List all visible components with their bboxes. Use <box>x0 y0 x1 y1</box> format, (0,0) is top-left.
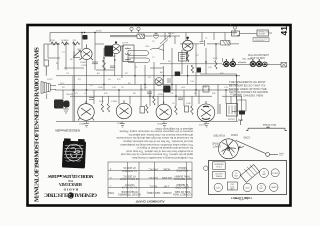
svg-text:1ST IF: 1ST IF <box>122 43 129 45</box>
svg-text:12SK7: 12SK7 <box>117 123 124 125</box>
svg-text:CONV.: CONV. <box>81 65 88 67</box>
svg-text:THRU DUMMY: THRU DUMMY <box>174 174 191 177</box>
svg-text:.02: .02 <box>172 103 176 105</box>
svg-text:470K: 470K <box>158 94 163 96</box>
svg-text:455 KC: 455 KC <box>149 184 157 187</box>
svg-text:.1 MF: .1 MF <box>163 184 170 187</box>
svg-text:47K: 47K <box>117 79 121 81</box>
svg-text:SOCKET: SOCKET <box>259 34 266 36</box>
svg-text:ON-OFF: ON-OFF <box>66 94 74 96</box>
svg-text:150K: 150K <box>186 103 191 105</box>
svg-text:C7: C7 <box>152 57 155 59</box>
svg-text:SERVICE DATA: SERVICE DATA <box>59 182 82 186</box>
svg-text:MODELS 115, 115W and 116W: MODELS 115, 115W and 116W <box>54 128 80 132</box>
svg-text:R11: R11 <box>212 93 216 95</box>
svg-text:IN THE CHASSIS VIEW: IN THE CHASSIS VIEW <box>233 94 263 98</box>
svg-text:C11: C11 <box>170 93 174 95</box>
svg-text:OUTPUT: OUTPUT <box>124 183 134 186</box>
svg-text:R6: R6 <box>133 93 136 95</box>
svg-text:adjusted in the Alignment Char: adjusted in the Alignment Chart. <box>155 127 193 131</box>
svg-text:470K: 470K <box>50 40 55 42</box>
svg-text:35Z5: 35Z5 <box>213 58 218 60</box>
svg-text:12SQ7: 12SQ7 <box>157 124 164 126</box>
svg-text:VOL.: VOL. <box>60 83 65 85</box>
svg-text:STEP: STEP <box>107 191 114 194</box>
svg-text:TRANS.: TRANS. <box>216 175 223 178</box>
svg-text:C14: C14 <box>190 81 195 83</box>
svg-text:C8: C8 <box>148 77 151 79</box>
svg-text:41: 41 <box>279 26 289 36</box>
svg-text:455 KC: 455 KC <box>168 33 175 35</box>
svg-text:AT 1620 KC: AT 1620 KC <box>123 175 136 178</box>
svg-text:DIAL ADJUSTMENT: DIAL ADJUSTMENT <box>248 54 270 57</box>
svg-text:SK7: SK7 <box>260 188 264 190</box>
svg-text:3: 3 <box>109 168 111 171</box>
svg-text:SIGNAL: SIGNAL <box>177 166 186 169</box>
svg-text:IN SERIES: IN SERIES <box>176 183 188 186</box>
svg-text:DUMMY: DUMMY <box>162 191 171 194</box>
svg-text:SIDE OF GEN.: SIDE OF GEN. <box>174 190 190 193</box>
svg-text:SHAFT: SHAFT <box>212 145 221 149</box>
svg-text:200 MMF: 200 MMF <box>161 176 172 179</box>
svg-text:IN SEQUENCE: IN SEQUENCE <box>121 190 138 193</box>
svg-text:.005: .005 <box>181 87 186 89</box>
svg-text:455KC: 455KC <box>96 31 103 33</box>
svg-text:T1: T1 <box>135 67 138 69</box>
svg-text:C15: C15 <box>208 67 213 69</box>
svg-text:TUBE LAYOUT: TUBE LAYOUT <box>231 196 252 200</box>
svg-text:ALIGNMENT CHART: ALIGNMENT CHART <box>135 200 164 204</box>
svg-text:R9: R9 <box>194 93 197 95</box>
svg-text:220K: 220K <box>99 101 104 103</box>
svg-text:R5: R5 <box>168 61 171 63</box>
svg-text:AT 1400 KC: AT 1400 KC <box>123 166 136 169</box>
svg-text:RADIO: RADIO <box>63 188 78 192</box>
svg-text:DRUM: DRUM <box>231 133 238 135</box>
svg-text:SW.: SW. <box>233 33 237 35</box>
svg-text:SA7: SA7 <box>262 173 266 176</box>
svg-text:22K: 22K <box>73 40 77 42</box>
svg-text:R12: R12 <box>104 93 109 95</box>
svg-text:1400 KC: 1400 KC <box>148 168 158 171</box>
svg-text:2: 2 <box>109 176 111 179</box>
svg-text:12SK7: 12SK7 <box>110 56 117 58</box>
svg-text:MANUAL OF 1949 MOST-OFTEN-NEED: MANUAL OF 1949 MOST-OFTEN-NEEDED RADIO D… <box>33 47 40 202</box>
svg-text:CORD: CORD <box>243 136 250 138</box>
svg-text:LOOP: LOOP <box>47 79 53 81</box>
svg-text:R7: R7 <box>196 55 199 57</box>
svg-text:A3: A3 <box>97 72 100 75</box>
svg-text:OSC: OSC <box>77 49 82 51</box>
svg-text:12SA7: 12SA7 <box>80 61 87 64</box>
svg-text:PLUG: PLUG <box>216 166 222 168</box>
svg-text:SQ7: SQ7 <box>234 175 238 177</box>
svg-text:C16: C16 <box>112 87 117 89</box>
svg-text:.05: .05 <box>84 93 88 95</box>
svg-text:DIAL SCALE: DIAL SCALE <box>262 123 276 126</box>
svg-text:FOR: FOR <box>68 179 73 182</box>
svg-text:C13: C13 <box>224 87 229 89</box>
svg-text:AVC: AVC <box>160 71 165 74</box>
svg-text:1 MEG: 1 MEG <box>111 101 118 103</box>
svg-text:OSC.: OSC. <box>145 46 150 48</box>
svg-text:C9: C9 <box>121 87 124 89</box>
svg-text:R1: R1 <box>78 79 81 81</box>
svg-text:GEN. FREQ.: GEN. FREQ. <box>146 191 160 194</box>
svg-text:1620 KC: 1620 KC <box>148 176 158 179</box>
svg-text:1: 1 <box>109 184 111 187</box>
svg-text:C5: C5 <box>75 93 78 95</box>
svg-text:C1: C1 <box>62 52 65 54</box>
svg-text:C4: C4 <box>90 85 93 87</box>
svg-text:LOOP: LOOP <box>129 26 135 28</box>
svg-text:C3: C3 <box>66 73 69 75</box>
svg-text:12SQ7: 12SQ7 <box>182 54 189 56</box>
svg-text:POINTER: POINTER <box>213 134 225 138</box>
svg-text:LAMP: LAMP <box>271 186 277 189</box>
svg-text:T2: T2 <box>205 38 208 40</box>
svg-text:NONE: NONE <box>163 168 170 171</box>
svg-text:R2: R2 <box>62 87 65 89</box>
svg-text:MODELS 115, 115W and 116W: MODELS 115, 115W and 116W <box>47 174 94 179</box>
svg-text:C2: C2 <box>152 41 155 43</box>
svg-text:C12: C12 <box>203 87 208 89</box>
svg-text:12SK7: 12SK7 <box>272 173 278 175</box>
svg-text:R3: R3 <box>125 73 128 75</box>
svg-text:35Z5: 35Z5 <box>245 188 249 190</box>
svg-text:50L6: 50L6 <box>216 187 220 189</box>
svg-text:(TOP OF SET): (TOP OF SET) <box>250 58 265 60</box>
svg-text:150K: 150K <box>98 87 103 89</box>
svg-text:S1: S1 <box>56 63 59 65</box>
svg-text:.01: .01 <box>144 87 148 89</box>
svg-text:C6: C6 <box>108 79 111 81</box>
svg-text:12SA7: 12SA7 <box>79 123 86 126</box>
svg-text:50L6GT: 50L6GT <box>199 125 207 127</box>
svg-text:35Z5GT: 35Z5GT <box>228 119 236 121</box>
svg-text:10 MEG: 10 MEG <box>61 40 69 42</box>
svg-text:R0: R0 <box>70 59 73 61</box>
